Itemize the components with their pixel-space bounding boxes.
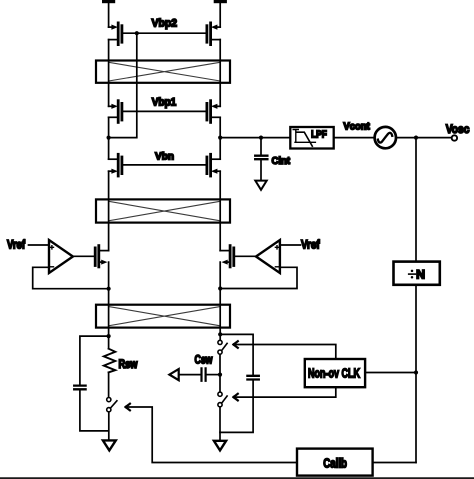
switch S2 bbox=[218, 340, 227, 354]
block Calib bbox=[297, 449, 373, 476]
capacitor right shunt bbox=[247, 376, 258, 380]
wire Vcont net bbox=[220, 137, 452, 139]
block LPF bbox=[290, 127, 333, 149]
arrow clk phase 2 bbox=[233, 394, 237, 401]
wire gate-bias drop (Vbp2 node to left drain node) bbox=[109, 33, 137, 137]
wire left rail bbox=[108, 3, 110, 441]
switch S3 bbox=[218, 392, 227, 407]
terminal Vosc bbox=[452, 135, 457, 140]
wire Vref left input bbox=[29, 244, 50, 246]
border bottom strip bbox=[0, 477, 474, 479]
wire calib control bbox=[126, 407, 297, 463]
node clk tap bbox=[414, 370, 418, 374]
ground (right branch) bbox=[214, 441, 226, 451]
svg-text:LPF: LPF bbox=[311, 129, 327, 140]
node right drain junction bbox=[218, 136, 222, 140]
wire right shunt top bbox=[220, 334, 253, 375]
label divide-by-N bbox=[409, 268, 425, 282]
svg-text:Vref: Vref bbox=[301, 240, 320, 252]
block divide-by-N bbox=[394, 262, 440, 285]
transistor M8 (right buffer NMOS) bbox=[220, 246, 234, 267]
arrow calib control bbox=[126, 404, 130, 411]
svg-text:Calib: Calib bbox=[323, 456, 347, 471]
switch S1 bbox=[107, 398, 117, 412]
wire clk phase 2 bbox=[234, 387, 336, 397]
node right feedback junction bbox=[218, 286, 222, 290]
wire divider input bbox=[415, 138, 417, 262]
wire U1 feedback bbox=[33, 267, 109, 288]
node left drain junction bbox=[107, 136, 111, 140]
svg-text:N: N bbox=[416, 268, 425, 282]
wire right shunt bottom bbox=[220, 380, 253, 433]
node divider tap bbox=[414, 136, 418, 140]
wire left shunt top bbox=[80, 336, 109, 385]
node Cint tap bbox=[259, 136, 263, 140]
node switched-cap top junction bbox=[218, 332, 222, 336]
node left feedback junction bbox=[107, 287, 111, 291]
block Non-ov CLK bbox=[305, 359, 365, 387]
svg-text:Rsw: Rsw bbox=[119, 359, 138, 371]
resistor Rsw bbox=[104, 349, 116, 373]
svg-text:Vosc: Vosc bbox=[446, 122, 470, 136]
svg-text:Vcont: Vcont bbox=[343, 121, 370, 132]
wire divider output bbox=[415, 285, 417, 463]
oscillator (VCO symbol) bbox=[375, 127, 396, 148]
node Vbp2 gate junction bbox=[135, 31, 139, 35]
svg-text:Vref: Vref bbox=[7, 240, 25, 252]
wire Vbp2 gate bus bbox=[122, 32, 207, 34]
transistor M6 (right NMOS, gate Vbn) bbox=[207, 154, 220, 176]
transistor M3 (left PMOS, gate Vbp1) bbox=[109, 101, 122, 123]
wire U2 output bbox=[234, 255, 256, 257]
svg-text:Non-ov CLK: Non-ov CLK bbox=[308, 366, 360, 381]
svg-text:Vbp2: Vbp2 bbox=[152, 18, 178, 30]
wire Vbn gate bus bbox=[122, 164, 207, 166]
supply VDD left bbox=[102, 0, 115, 3]
op-amp U1 (left) bbox=[49, 240, 73, 273]
wire clk feed bbox=[365, 372, 416, 374]
wire Vbp1 gate bus bbox=[122, 110, 207, 112]
wire right rail bbox=[219, 3, 221, 441]
wire clk phase 1 bbox=[234, 345, 336, 360]
ground (left branch) bbox=[103, 440, 116, 450]
ground (Cint) bbox=[255, 181, 266, 190]
capacitor left shunt bbox=[74, 386, 85, 390]
capacitor Cint bbox=[255, 138, 267, 181]
supply VDD right bbox=[214, 0, 227, 3]
connector Csw driver bbox=[169, 369, 178, 380]
wire calib to divider bbox=[373, 462, 416, 464]
svg-text:Vbn: Vbn bbox=[155, 152, 174, 163]
capacitor Csw bbox=[179, 368, 220, 380]
arrow clk phase 1 bbox=[233, 341, 237, 348]
op-amp U2 (right) bbox=[256, 240, 280, 273]
wire U2 feedback bbox=[220, 267, 297, 288]
wire Vref right input bbox=[280, 244, 301, 246]
node Rsw top junction bbox=[107, 334, 111, 338]
transistor M7 (left buffer NMOS) bbox=[95, 246, 108, 267]
svg-text:Vbp1: Vbp1 bbox=[152, 96, 177, 108]
switch-matrix box B3 bbox=[96, 305, 230, 328]
switch-matrix box B2 bbox=[96, 199, 230, 222]
wire U1 output bbox=[73, 255, 95, 257]
transistor M5 (left NMOS, gate Vbn) bbox=[109, 154, 122, 176]
transistor M2 (right PMOS, gate Vbp2) bbox=[207, 23, 220, 45]
switch-matrix box B1 bbox=[96, 61, 230, 83]
transistor M4 (right PMOS, gate Vbp1) bbox=[207, 101, 220, 123]
svg-text:Cint: Cint bbox=[272, 155, 291, 167]
wire left shunt bottom bbox=[80, 389, 109, 431]
svg-text:Csw: Csw bbox=[195, 355, 213, 367]
transistor M1 (left PMOS, gate Vbp2) bbox=[109, 23, 122, 45]
node Csw tap bbox=[218, 373, 222, 377]
